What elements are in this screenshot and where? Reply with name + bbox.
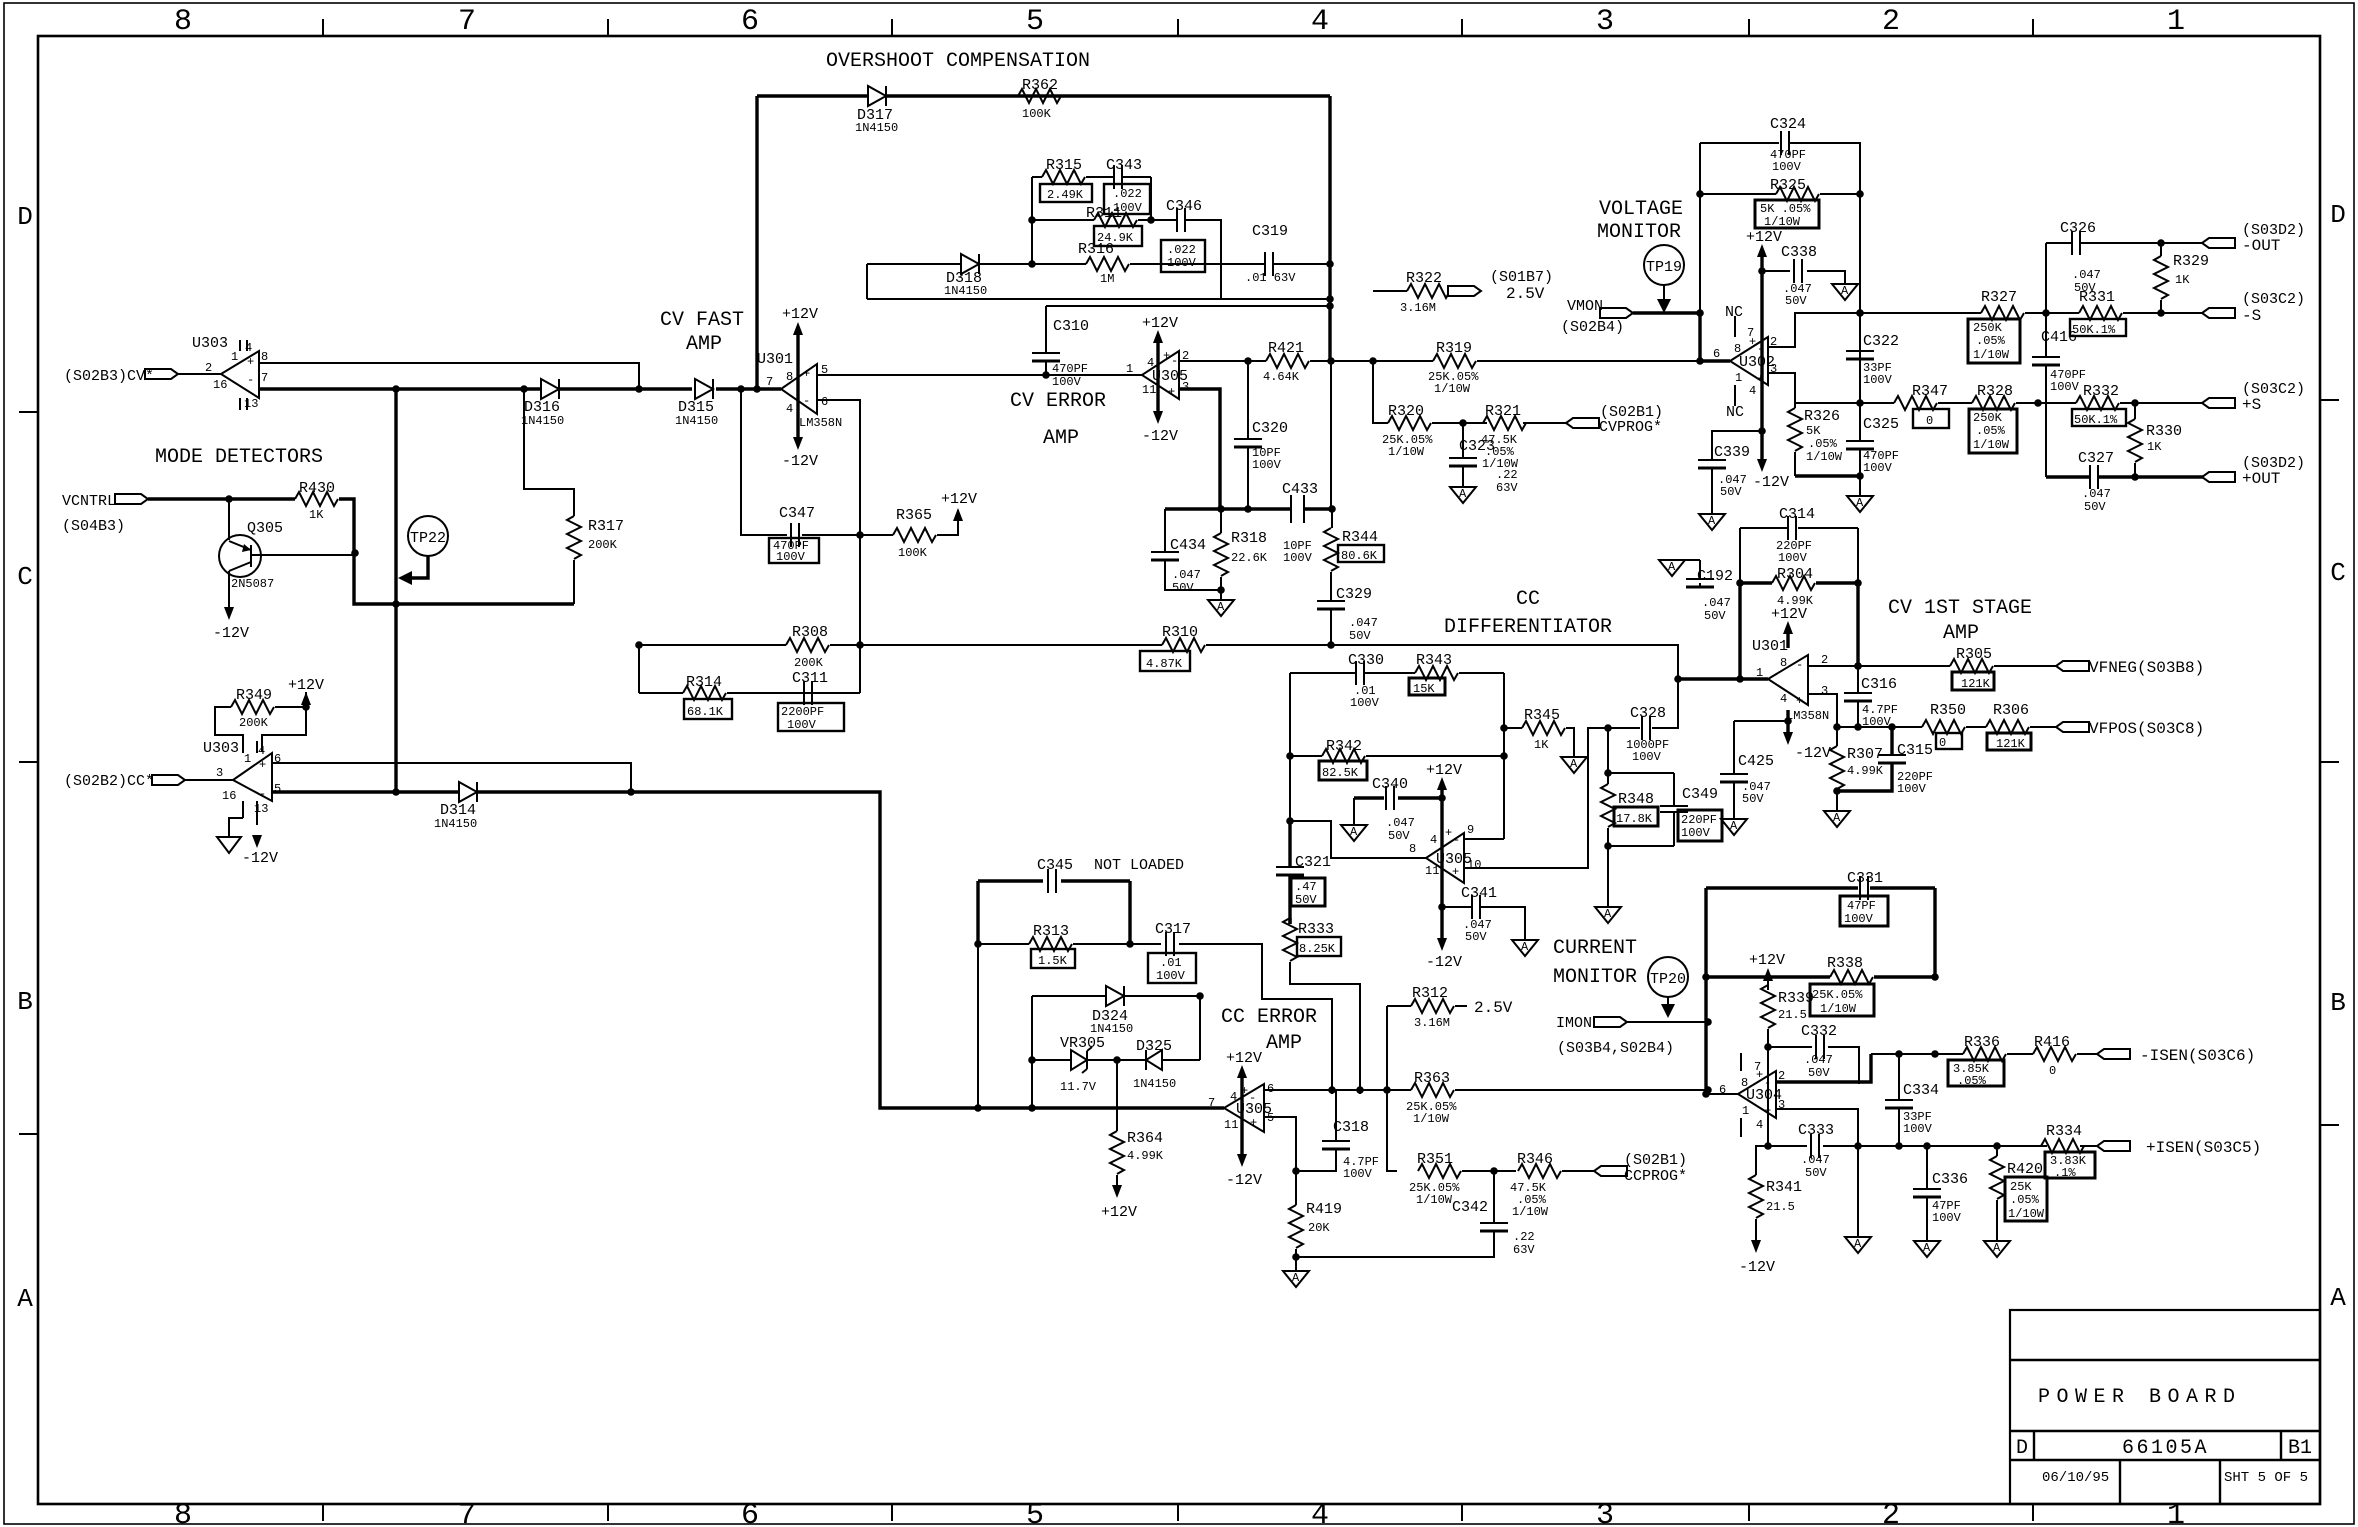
wire C433 row thick — [1165, 507, 1332, 510]
svg-text:.05%: .05% — [1808, 437, 1838, 451]
svg-text:R336: R336 — [1964, 1034, 2000, 1051]
svg-text:B: B — [2330, 988, 2346, 1018]
resistor R319 — [1428, 340, 1479, 396]
svg-text:-12V: -12V — [782, 453, 818, 470]
svg-text:100V: 100V — [2050, 380, 2080, 394]
svg-text:+: + — [1452, 865, 1459, 879]
svg-text:-12V: -12V — [213, 625, 249, 642]
svg-text:C310: C310 — [1053, 318, 1089, 335]
svg-text:200K: 200K — [239, 716, 269, 730]
capacitor C330 — [1348, 652, 1384, 710]
capacitor C329 — [1317, 586, 1378, 645]
svg-text:100V: 100V — [1844, 912, 1874, 926]
svg-text:8: 8 — [174, 1499, 192, 1527]
power rail U305-2 — [1426, 762, 1462, 971]
svg-text:11: 11 — [1425, 864, 1439, 878]
svg-text:(S02B2)CC*: (S02B2)CC* — [64, 773, 154, 790]
wire R317 top jog to CV wire — [524, 389, 574, 516]
wire top loop — [757, 96, 1330, 389]
svg-text:1/10W: 1/10W — [1820, 1002, 1857, 1016]
wire main row R308/R310 — [639, 645, 1678, 679]
svg-text:6: 6 — [1719, 1083, 1726, 1097]
svg-text:R344: R344 — [1342, 529, 1378, 546]
svg-text:470PF: 470PF — [1052, 362, 1088, 376]
svg-text:1K: 1K — [2147, 440, 2162, 454]
svg-text:D: D — [2330, 200, 2346, 230]
svg-text:C: C — [17, 562, 33, 592]
resistor R341 — [1749, 1146, 1802, 1240]
svg-text:4: 4 — [1756, 1118, 1763, 1132]
wire C425 top to -12V rail — [1734, 720, 1788, 722]
svg-text:AMP: AMP — [686, 333, 722, 356]
svg-text:-S: -S — [2242, 307, 2261, 325]
transistor Q305 — [219, 499, 355, 612]
resistor R305 — [1950, 646, 1994, 691]
svg-text:3: 3 — [216, 766, 223, 780]
svg-text:SHT 5 OF 5: SHT 5 OF 5 — [2224, 1470, 2308, 1486]
svg-text:C338: C338 — [1781, 244, 1817, 261]
svg-text:R365: R365 — [896, 507, 932, 524]
svg-text:100V: 100V — [1350, 696, 1380, 710]
svg-text:NC: NC — [1726, 404, 1744, 421]
svg-text:4: 4 — [1147, 356, 1154, 370]
svg-text:6: 6 — [741, 1499, 759, 1527]
ground under R307 — [1824, 811, 1850, 827]
capacitor C336 — [1913, 1146, 1968, 1241]
svg-text:C433: C433 — [1282, 481, 1318, 498]
svg-text:C345: C345 — [1037, 857, 1073, 874]
power rail U305-3 — [1226, 1050, 1262, 1189]
node CCPROG* terminal — [1594, 1152, 1687, 1185]
svg-text:21.5: 21.5 — [1778, 1008, 1807, 1022]
svg-text:R419: R419 — [1306, 1201, 1342, 1218]
resistor R318 — [1214, 509, 1268, 600]
power +12V at R349 — [288, 677, 324, 705]
resistor R320 — [1382, 403, 1433, 459]
op-amp U305 (differentiator section) — [1409, 823, 1481, 883]
svg-text:+12V: +12V — [1101, 1204, 1137, 1221]
svg-text:R332: R332 — [2083, 383, 2119, 400]
svg-text:1/10W: 1/10W — [1434, 382, 1471, 396]
svg-text:50V: 50V — [1295, 893, 1317, 907]
wire R342 row — [1290, 755, 1504, 757]
svg-text:C192: C192 — [1697, 568, 1733, 585]
svg-text:1/10W: 1/10W — [1388, 445, 1425, 459]
wire VCNTRL to R430 — [148, 497, 295, 500]
svg-text:R364: R364 — [1127, 1130, 1163, 1147]
svg-text:B1: B1 — [2288, 1437, 2312, 1460]
svg-text:11.7V: 11.7V — [1060, 1080, 1097, 1094]
svg-text:16: 16 — [222, 789, 236, 803]
svg-text:4: 4 — [245, 341, 252, 355]
svg-text:50V: 50V — [2084, 500, 2106, 514]
svg-text:VFNEG(S03B8): VFNEG(S03B8) — [2089, 659, 2204, 677]
resistor R333 — [1283, 918, 1360, 1094]
ground under R345 — [1561, 757, 1587, 773]
svg-text:47PF: 47PF — [1847, 899, 1876, 913]
wire R336 row — [1871, 1053, 2097, 1055]
svg-text:C315: C315 — [1897, 742, 1933, 759]
resistor R328 — [1969, 383, 2017, 453]
svg-text:+12V: +12V — [1142, 315, 1178, 332]
svg-text:7: 7 — [766, 375, 773, 389]
capacitor C339 — [1698, 431, 1762, 514]
wire R348/C349 loop — [1608, 728, 1674, 907]
svg-text:+: + — [1163, 349, 1170, 363]
resistor R419 — [1289, 1171, 1342, 1271]
resistor R311 — [1086, 205, 1142, 246]
resistor R332 — [2072, 383, 2126, 427]
svg-text:50V: 50V — [1785, 294, 1807, 308]
resistor R314 — [683, 674, 732, 719]
svg-text:R333: R333 — [1298, 921, 1334, 938]
wire U302 pin2 out to -S row — [1768, 313, 2205, 347]
svg-text:MONITOR: MONITOR — [1597, 221, 1681, 244]
svg-text:+: + — [259, 758, 266, 772]
svg-text:A: A — [17, 1284, 33, 1314]
svg-text:R416: R416 — [2034, 1034, 2070, 1051]
power -12V at Q305 — [213, 607, 249, 642]
svg-text:OVERSHOOT COMPENSATION: OVERSHOOT COMPENSATION — [826, 50, 1090, 73]
node VCNTRL terminal — [62, 493, 148, 535]
resistor R304 — [1740, 566, 1858, 608]
svg-text:R329: R329 — [2173, 253, 2209, 270]
svg-text:C314: C314 — [1779, 506, 1815, 523]
wire main CV output — [259, 387, 692, 390]
capacitor C342 — [1452, 1199, 1535, 1257]
wire CV* to U303 apex — [178, 373, 221, 375]
svg-text:R313: R313 — [1033, 923, 1069, 940]
svg-text:0: 0 — [1939, 736, 1946, 750]
svg-text:1K: 1K — [2175, 273, 2190, 287]
svg-text:.047: .047 — [1349, 616, 1378, 630]
svg-text:5: 5 — [1026, 1499, 1044, 1527]
svg-text:R307: R307 — [1847, 746, 1883, 763]
svg-text:(S04B3): (S04B3) — [62, 518, 125, 535]
svg-text:8.25K: 8.25K — [1299, 942, 1336, 956]
svg-text:3: 3 — [1596, 5, 1614, 39]
svg-text:R306: R306 — [1993, 702, 2029, 719]
resistor R307 — [1830, 727, 1884, 811]
svg-text:C329: C329 — [1336, 586, 1372, 603]
svg-text:4.87K: 4.87K — [1146, 657, 1183, 671]
svg-text:1N4150: 1N4150 — [855, 121, 898, 135]
svg-text:1N4150: 1N4150 — [434, 817, 477, 831]
resistor R327 — [1968, 289, 2024, 363]
node -ISEN terminal — [2097, 1047, 2255, 1065]
svg-text:+: + — [1168, 385, 1175, 399]
svg-text:100V: 100V — [1772, 160, 1802, 174]
wire U301b pin2 row to VFNEG — [1808, 665, 2060, 667]
svg-text:R347: R347 — [1912, 383, 1948, 400]
svg-text:R316: R316 — [1078, 241, 1114, 258]
svg-text:2N5087: 2N5087 — [231, 577, 274, 591]
svg-text:A: A — [2330, 1283, 2346, 1313]
diode D324 — [1032, 986, 1200, 1036]
wire D318/R316/C319 row — [867, 264, 1330, 299]
svg-text:R322: R322 — [1406, 270, 1442, 287]
svg-text:+: + — [1749, 335, 1756, 349]
svg-text:+12V: +12V — [288, 677, 324, 694]
node VMON terminal — [1561, 298, 1633, 336]
resistor R362 — [1018, 77, 1061, 121]
svg-text:4: 4 — [786, 402, 793, 416]
wire into U301b pin1 — [1678, 677, 1768, 680]
diode D325 — [1133, 1038, 1200, 1091]
svg-text:250K: 250K — [1973, 321, 2003, 335]
svg-text:C319: C319 — [1252, 223, 1288, 240]
svg-text:4: 4 — [1430, 833, 1437, 847]
svg-text:220PF: 220PF — [1681, 813, 1717, 827]
svg-text:1/10W: 1/10W — [1512, 1205, 1549, 1219]
svg-text:U301: U301 — [757, 351, 793, 368]
capacitor C311 — [778, 670, 844, 732]
wire C330/R343 top loop — [1290, 673, 1504, 839]
svg-text:+OUT: +OUT — [2242, 470, 2280, 488]
capacitor C321 — [1276, 821, 1331, 924]
svg-text:.05%: .05% — [2010, 1193, 2040, 1207]
resistor R342 — [1319, 738, 1367, 780]
svg-text:8: 8 — [1780, 656, 1787, 670]
svg-text:D: D — [2016, 1437, 2028, 1460]
op-amp U305 (CC error section) — [1208, 1082, 1274, 1132]
svg-text:1: 1 — [1742, 1104, 1749, 1118]
svg-text:50V: 50V — [1465, 930, 1487, 944]
svg-text:6: 6 — [821, 395, 828, 409]
svg-text:11: 11 — [1224, 1118, 1238, 1132]
capacitor C343 — [1104, 157, 1150, 215]
svg-text:C317: C317 — [1155, 921, 1191, 938]
resistor R347 — [1894, 383, 1949, 428]
wire R430 to TP22 row — [339, 499, 574, 604]
svg-text:.047: .047 — [1702, 596, 1731, 610]
svg-text:+ISEN(S03C5): +ISEN(S03C5) — [2146, 1139, 2261, 1157]
resistor R334 — [2041, 1123, 2095, 1180]
svg-text:100V: 100V — [1343, 1167, 1373, 1181]
svg-text:VR305: VR305 — [1060, 1035, 1105, 1052]
svg-text:R334: R334 — [2046, 1123, 2082, 1140]
svg-text:50V: 50V — [1742, 792, 1764, 806]
capacitor C346 — [1161, 198, 1205, 272]
svg-text:.047: .047 — [1172, 568, 1201, 582]
svg-text:C326: C326 — [2060, 220, 2096, 237]
wire +OUT row — [2046, 475, 2205, 478]
svg-text:AMP: AMP — [1266, 1032, 1302, 1055]
power rail U305 — [1142, 315, 1178, 445]
svg-text:4.64K: 4.64K — [1263, 370, 1300, 384]
capacitor C323 — [1449, 423, 1518, 495]
svg-text:C434: C434 — [1170, 537, 1206, 554]
svg-text:10: 10 — [1467, 858, 1481, 872]
svg-text:200K: 200K — [588, 538, 618, 552]
svg-text:-: - — [803, 394, 810, 408]
resistor R420 — [1990, 1146, 2047, 1241]
ground above C192 — [1659, 560, 1685, 576]
svg-text:50V: 50V — [1704, 609, 1726, 623]
svg-text:VCNTRL: VCNTRL — [62, 493, 116, 510]
capacitor C341 — [1442, 885, 1525, 944]
svg-text:R350: R350 — [1930, 702, 1966, 719]
svg-text:1N4150: 1N4150 — [944, 284, 987, 298]
svg-text:CURRENT: CURRENT — [1553, 937, 1637, 960]
svg-text:121K: 121K — [1996, 737, 2026, 751]
svg-text:1N4150: 1N4150 — [1133, 1077, 1176, 1091]
svg-text:R328: R328 — [1977, 383, 2013, 400]
svg-text:U301: U301 — [1752, 638, 1788, 655]
node junction dots CV wire — [392, 385, 400, 393]
svg-text:CV FAST: CV FAST — [660, 309, 744, 332]
capacitor C315 — [1837, 727, 1906, 791]
svg-text:R312: R312 — [1412, 985, 1448, 1002]
svg-text:8: 8 — [174, 5, 192, 39]
svg-text:100V: 100V — [787, 718, 817, 732]
svg-text:100V: 100V — [1681, 826, 1711, 840]
svg-text:CV ERROR: CV ERROR — [1010, 390, 1106, 413]
svg-text:VFPOS(S03C8): VFPOS(S03C8) — [2089, 720, 2204, 738]
svg-text:7: 7 — [261, 371, 268, 385]
wire R313 row — [978, 944, 1332, 1094]
svg-text:+: + — [1796, 694, 1803, 708]
svg-text:2200PF: 2200PF — [781, 705, 824, 719]
ground under C323 — [1450, 487, 1476, 503]
ground at U303-CC pin16 — [217, 818, 243, 853]
svg-text:5K: 5K — [1806, 424, 1821, 438]
svg-text:POWER BOARD: POWER BOARD — [2038, 1386, 2242, 1409]
svg-text:.05%: .05% — [1976, 334, 2006, 348]
wire U304 pin2 output — [1776, 1054, 1871, 1082]
resistor R321 — [1481, 403, 1526, 471]
node +OUT terminal — [2202, 455, 2305, 488]
diode D318 — [944, 254, 987, 298]
svg-text:.05%: .05% — [1957, 1074, 1987, 1088]
wire U301 pin5 to U305 output — [817, 374, 1142, 376]
wire R320 row — [1373, 361, 1566, 423]
resistor R430 — [295, 480, 338, 522]
svg-text:.022: .022 — [1113, 187, 1142, 201]
svg-text:3: 3 — [1182, 380, 1189, 394]
svg-text:-: - — [247, 373, 254, 387]
svg-text:R308: R308 — [792, 624, 828, 641]
svg-text:+: + — [247, 355, 254, 369]
svg-text:R421: R421 — [1268, 340, 1304, 357]
svg-text:-: - — [1796, 658, 1803, 672]
svg-text:2: 2 — [1882, 5, 1900, 39]
svg-text:C331: C331 — [1847, 870, 1883, 887]
svg-text:C339: C339 — [1714, 444, 1750, 461]
capacitor C326 — [2060, 220, 2101, 295]
svg-text:-12V: -12V — [1753, 474, 1789, 491]
svg-text:C425: C425 — [1738, 753, 1774, 770]
svg-text:R348: R348 — [1618, 791, 1654, 808]
svg-text:R349: R349 — [236, 687, 272, 704]
svg-text:R430: R430 — [299, 480, 335, 497]
svg-text:.01 63V: .01 63V — [1245, 271, 1296, 285]
resistor R331 — [2070, 289, 2126, 337]
node 2.5V terminal (S01B7) — [1448, 269, 1553, 303]
svg-text:LM358N: LM358N — [1786, 709, 1829, 723]
svg-text:2.5V: 2.5V — [1506, 285, 1545, 303]
resistor R363 — [1406, 1070, 1457, 1126]
resistor R338 — [1706, 955, 1935, 1016]
wire R311/C346 row — [1032, 220, 1221, 299]
svg-text:1/10W: 1/10W — [1413, 1112, 1450, 1126]
power -12V at U303-CC — [242, 835, 278, 867]
resistor R350 — [1922, 702, 1966, 750]
diode D316 — [521, 379, 564, 428]
op-amp U301 (CV 1st stage) — [1752, 638, 1829, 723]
svg-text:1/10W: 1/10W — [1416, 1193, 1453, 1207]
resistor R343 — [1409, 652, 1458, 696]
svg-text:1: 1 — [231, 350, 238, 364]
svg-text:20K: 20K — [1308, 1221, 1330, 1235]
svg-text:25K.05%: 25K.05% — [1812, 988, 1863, 1002]
svg-text:R339: R339 — [1778, 990, 1814, 1007]
svg-text:-12V: -12V — [1739, 1259, 1775, 1276]
svg-text:1/10W: 1/10W — [1764, 215, 1801, 229]
svg-text:50V: 50V — [1388, 829, 1410, 843]
svg-text:50V: 50V — [1805, 1166, 1827, 1180]
svg-text:2: 2 — [205, 361, 212, 375]
svg-text:MONITOR: MONITOR — [1553, 966, 1637, 989]
svg-text:100V: 100V — [1903, 1122, 1933, 1136]
power rail U302 — [1746, 229, 1789, 491]
svg-text:-12V: -12V — [1226, 1172, 1262, 1189]
svg-text:.22: .22 — [1496, 468, 1518, 482]
svg-text:13: 13 — [244, 397, 258, 411]
svg-text:-: - — [1249, 1091, 1256, 1105]
svg-text:250K: 250K — [1973, 411, 2003, 425]
capacitor C320 — [1234, 361, 1288, 509]
svg-text:4: 4 — [258, 744, 265, 758]
svg-text:C316: C316 — [1861, 676, 1897, 693]
svg-text:1: 1 — [244, 752, 251, 766]
svg-text:.22: .22 — [1513, 1230, 1535, 1244]
svg-text:6: 6 — [741, 5, 759, 39]
wire U301 pin6 loop via C347 — [741, 389, 958, 535]
capacitor C324 — [1770, 116, 1806, 174]
wire +ISEN row — [1858, 1145, 2112, 1147]
capacitor C318 — [1322, 1119, 1379, 1181]
svg-text:.022: .022 — [1167, 243, 1196, 257]
svg-text:C333: C333 — [1798, 1122, 1834, 1139]
capacitor C328 — [1626, 705, 1669, 764]
svg-text:+12V: +12V — [1749, 952, 1785, 969]
svg-text:C318: C318 — [1333, 1119, 1369, 1136]
svg-text:1N4150: 1N4150 — [1090, 1022, 1133, 1036]
ground under C325 — [1847, 496, 1873, 512]
svg-text:C327: C327 — [2078, 450, 2114, 467]
svg-text:100V: 100V — [1156, 969, 1186, 983]
svg-text:06/10/95: 06/10/95 — [2042, 1470, 2109, 1486]
wire R365 to +12V — [937, 510, 958, 535]
wire C310 top line — [1046, 305, 1330, 307]
capacitor C314 loop — [1740, 506, 1858, 583]
ground under R318 — [1208, 600, 1234, 616]
svg-text:U303: U303 — [203, 740, 239, 757]
ground under jog — [1845, 1146, 1871, 1253]
svg-text:C343: C343 — [1106, 157, 1142, 174]
svg-text:100K: 100K — [1022, 107, 1052, 121]
svg-text:C346: C346 — [1166, 198, 1202, 215]
svg-text:-12V: -12V — [1795, 745, 1831, 762]
svg-text:C324: C324 — [1770, 116, 1806, 133]
svg-text:13: 13 — [254, 802, 268, 816]
svg-text:50V: 50V — [2074, 281, 2096, 295]
resistor R306 — [1986, 702, 2031, 751]
svg-text:50V: 50V — [1808, 1066, 1830, 1080]
svg-text:LM358N: LM358N — [799, 416, 842, 430]
capacitor C192 — [1672, 560, 1733, 623]
